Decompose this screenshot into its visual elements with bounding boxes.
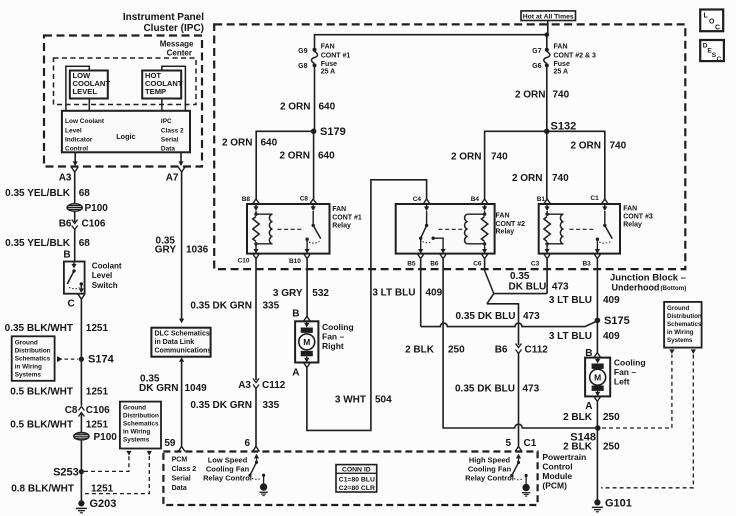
IPC logic box [62, 111, 190, 153]
svg-text:Cooling Fan: Cooling Fan [468, 465, 512, 474]
pin B4 fork [471, 196, 488, 204]
low coolant indicator housing rect [66, 66, 89, 111]
relay K2 contact to B6 exit [433, 238, 446, 253]
fuse F2 FAN CONT #2 and 3 25A [532, 44, 596, 76]
svg-text:S175: S175 [604, 315, 630, 327]
svg-text:5: 5 [505, 438, 511, 449]
wire P100 to S253 [80, 440, 82, 472]
svg-text:0.5 BLK/WHT: 0.5 BLK/WHT [10, 420, 73, 431]
label: Instrument Panel Cluster (IPC) title [123, 12, 204, 34]
wire C to S174 [80, 299, 82, 359]
wire C106 to coolant level switch [74, 230, 76, 262]
label: 0.35 DK BLU 473 (to C112) [455, 311, 540, 322]
power feed Hot at All Times [521, 11, 576, 21]
svg-text:Relay: Relay [332, 223, 351, 230]
svg-text:M: M [303, 337, 310, 347]
DLC schematics reference box [151, 328, 211, 357]
svg-text:2 BLK: 2 BLK [563, 442, 593, 453]
svg-text:FAN: FAN [496, 213, 510, 220]
label: Cooling Fan - Left [614, 358, 646, 387]
fan right pin B fork [304, 316, 311, 321]
svg-text:GRY: GRY [155, 245, 177, 256]
svg-text:409: 409 [603, 295, 620, 306]
svg-text:C8: C8 [65, 405, 78, 416]
pin 6 connector fork [244, 438, 259, 452]
relay K1 control dashed link [278, 228, 304, 230]
svg-text:1251: 1251 [86, 323, 109, 334]
svg-text:L: L [704, 13, 709, 20]
wire B5 down [420, 259, 422, 327]
svg-text:M: M [594, 373, 601, 383]
pin B8 fork [242, 196, 260, 204]
label: 2 ORN 740 (to B1) [512, 173, 569, 184]
junction block dashed box [214, 24, 685, 269]
svg-text:2 ORN: 2 ORN [222, 138, 253, 149]
label: 0.8 BLK/WHT 1251 [11, 484, 113, 495]
relay K3 coil to C3 exit [545, 244, 550, 254]
svg-text:Fan –: Fan – [614, 367, 636, 377]
fuse F1 FAN CONT #1 25A [298, 44, 350, 76]
pin C3 fork [531, 254, 551, 268]
relay K2 switch to B5 exit [418, 238, 423, 253]
svg-text:C112: C112 [262, 380, 286, 391]
svg-text:Relay Control: Relay Control [465, 474, 514, 483]
wire S132 branch to C1 [547, 131, 605, 199]
wire S174 to C106 [80, 359, 82, 405]
ground distribution reference box (right) [664, 302, 702, 348]
svg-text:Ground: Ground [667, 305, 690, 312]
pin A7 connector fork [166, 167, 185, 184]
svg-text:S174: S174 [88, 354, 115, 366]
ground G101 [592, 498, 632, 512]
svg-text:640: 640 [318, 151, 335, 162]
pin B10 fork [289, 254, 311, 265]
svg-text:Class 2: Class 2 [161, 128, 184, 135]
label: FAN CONT #2 Relay [496, 213, 526, 236]
svg-text:B5: B5 [407, 261, 416, 268]
svg-text:P100: P100 [94, 432, 118, 443]
svg-text:A3: A3 [59, 173, 72, 184]
svg-text:B6: B6 [59, 219, 72, 230]
svg-text:Indicator: Indicator [65, 137, 93, 144]
svg-text:3 LT BLU: 3 LT BLU [549, 295, 592, 306]
svg-text:DK BLU: DK BLU [509, 282, 547, 293]
label: 3 WHT 504 [335, 395, 392, 406]
svg-text:Center: Center [167, 49, 192, 58]
connector ID table CONN ID [336, 465, 377, 492]
label: 0.35 DK BLU 473 (2) [455, 384, 540, 395]
cooling fan left motor M2 [585, 358, 610, 397]
wire fan right A to relay2 C4 (3 WHT) [307, 180, 427, 431]
svg-text:740: 740 [610, 141, 627, 152]
svg-text:B6: B6 [430, 261, 439, 268]
svg-text:S253: S253 [53, 467, 79, 479]
label: 3 LT BLU 409 (3) [549, 331, 620, 342]
svg-text:Fuse: Fuse [554, 61, 570, 68]
svg-text:0.5 BLK/WHT: 0.5 BLK/WHT [10, 387, 73, 398]
label: 2 ORN 740 (fuse2) [515, 90, 570, 101]
wire into fuse 1 [314, 35, 316, 50]
svg-text:C10: C10 [238, 258, 250, 265]
svg-text:Systems: Systems [123, 437, 150, 444]
wire fuse2 to S132 [546, 67, 548, 131]
svg-text:C1: C1 [590, 195, 599, 202]
relay K3 switch [596, 204, 613, 243]
relay K2 switch [419, 204, 435, 243]
wire C106 to P100 (2) [80, 414, 82, 433]
dashed link G101 to ground ref box [601, 355, 693, 488]
svg-text:Control: Control [65, 146, 88, 153]
label: 2 BLK 250 (B6) [405, 345, 465, 356]
svg-text:Instrument Panel: Instrument Panel [123, 12, 204, 23]
svg-text:Powertrain: Powertrain [542, 452, 586, 462]
hot coolant indicator housing rect [162, 66, 186, 111]
label: 0.35 GRY 1036 [155, 236, 209, 256]
indicator HOT COOLANT TEMP [142, 71, 183, 99]
label: 2 ORN 640 (to C8) [279, 151, 335, 162]
svg-text:473: 473 [552, 282, 569, 293]
svg-text:3 WHT: 3 WHT [335, 395, 366, 406]
svg-text:0.35 DK GRN: 0.35 DK GRN [190, 301, 252, 312]
svg-text:335: 335 [263, 400, 280, 411]
reference arrows below right ground box [669, 349, 696, 354]
IPC instrument panel cluster dashed box [44, 36, 202, 167]
label: 0.35 YEL/BLK 68 (2) [5, 238, 90, 249]
svg-text:A: A [585, 401, 592, 412]
svg-text:0.35 DK GRN: 0.35 DK GRN [190, 400, 252, 411]
PCM high speed internal ground [522, 484, 530, 496]
pin A3 connector fork [59, 167, 78, 184]
svg-text:1049: 1049 [185, 383, 208, 394]
label: 3 LT BLU 409 (B3) [549, 295, 620, 306]
wire S132 branch to B4 [485, 131, 547, 199]
svg-text:TEMP: TEMP [145, 87, 166, 96]
svg-text:Coolant: Coolant [92, 262, 122, 271]
svg-text:P100: P100 [85, 203, 109, 214]
connector P100 inline (2) [74, 432, 117, 443]
junction node above fuse 2 [545, 32, 550, 37]
dashed reference link to S174 [57, 356, 78, 362]
ground G203 [76, 498, 117, 513]
fan right pin A fork [292, 363, 310, 379]
svg-text:(Bottom): (Bottom) [661, 285, 687, 292]
svg-text:Class 2: Class 2 [172, 466, 197, 473]
wire S179 branch to B8 [256, 131, 313, 199]
svg-text:G7: G7 [532, 48, 541, 55]
svg-text:FAN: FAN [332, 206, 346, 213]
svg-text:2 ORN: 2 ORN [570, 141, 601, 152]
label: 3 GRY 532 [273, 288, 330, 299]
wire B5 horizontal to S175 [421, 321, 598, 327]
relay K1 coil winding [256, 214, 273, 244]
wire P100 to C106 [74, 211, 76, 222]
svg-text:409: 409 [426, 288, 443, 299]
svg-text:C4: C4 [413, 196, 422, 203]
svg-text:C6: C6 [473, 261, 482, 268]
svg-text:Fuse: Fuse [321, 61, 337, 68]
svg-text:in Wiring: in Wiring [123, 429, 150, 436]
relay K1 switch to B10 exit [305, 239, 310, 253]
svg-text:CONT #2: CONT #2 [496, 221, 526, 228]
label: fan right pin B [292, 309, 299, 320]
svg-text:B3: B3 [582, 261, 591, 268]
pin C10 fork [238, 254, 260, 265]
svg-text:Relay: Relay [623, 221, 642, 228]
svg-text:409: 409 [603, 331, 620, 342]
relay K3 coil feed arrow [545, 204, 550, 214]
pin C connector fork [67, 294, 84, 309]
relay K3 coil resistor [544, 213, 550, 246]
svg-text:C1=80 BLU: C1=80 BLU [339, 477, 375, 484]
svg-text:Logic: Logic [116, 132, 135, 141]
svg-text:Schematics: Schematics [123, 421, 159, 428]
svg-text:0.8 BLK/WHT: 0.8 BLK/WHT [11, 484, 74, 495]
svg-text:G9: G9 [298, 48, 307, 55]
svg-text:B6: B6 [495, 345, 508, 356]
svg-text:A: A [292, 368, 299, 379]
svg-text:S179: S179 [320, 126, 346, 138]
svg-text:CONT #3: CONT #3 [623, 214, 653, 221]
svg-text:G6: G6 [532, 63, 541, 70]
message center dashed box [54, 58, 197, 105]
dashed link S148 to ground ref box [602, 355, 672, 429]
svg-text:C3: C3 [531, 261, 540, 268]
svg-text:473: 473 [523, 311, 540, 322]
svg-text:DLC Schematics: DLC Schematics [155, 330, 210, 337]
indicator LOW COOLANT LEVEL [70, 71, 111, 99]
label: pin B [63, 250, 70, 261]
label: 0.35 DK GRN 335 [190, 301, 279, 312]
svg-text:473: 473 [523, 384, 540, 395]
svg-text:3 GRY: 3 GRY [273, 288, 303, 299]
svg-text:FAN: FAN [623, 206, 637, 213]
svg-text:640: 640 [261, 138, 278, 149]
svg-text:Right: Right [322, 341, 344, 351]
splice S253 [53, 467, 84, 479]
pin B5 fork [407, 254, 424, 268]
label: Junction Block - Underhood (Bottom) [610, 273, 686, 293]
svg-text:0.35 YEL/BLK: 0.35 YEL/BLK [5, 238, 71, 249]
svg-text:LEVEL: LEVEL [73, 87, 98, 96]
wire S148 to G101 [596, 428, 598, 502]
pin B3 fork [582, 254, 600, 268]
splice S132 [544, 121, 576, 135]
coolant level switch box [64, 262, 85, 294]
relay K1 switch [305, 204, 320, 243]
svg-text:B8: B8 [242, 196, 251, 203]
wire S175 to fan left [596, 320, 598, 352]
svg-text:1251: 1251 [86, 387, 109, 398]
dashed link G203 to ground ref box [84, 456, 149, 494]
wire hot feed horizontal [314, 34, 548, 36]
label: PCM Class 2 Serial Data [172, 457, 197, 493]
relay K2 coil winding [465, 214, 485, 244]
svg-text:0.35 DK BLU: 0.35 DK BLU [455, 384, 515, 395]
svg-text:Distribution: Distribution [15, 347, 51, 354]
relay K2 FAN CONT #2 box [396, 204, 495, 254]
label: fan left pin B [585, 348, 592, 359]
svg-text:C106: C106 [82, 219, 106, 230]
svg-text:2 ORN: 2 ORN [515, 90, 546, 101]
wire into fuse 2 [546, 35, 548, 50]
svg-text:504: 504 [375, 395, 392, 406]
svg-text:High Speed: High Speed [469, 456, 511, 465]
PCM powertrain control module dashed box [163, 452, 537, 506]
wire S253 to G203 [80, 472, 82, 504]
wire B6 down to S148 [443, 259, 595, 428]
splice S179 [311, 126, 346, 138]
label: Message Center [160, 40, 194, 58]
relay K1 coil to C10 exit [253, 244, 258, 254]
svg-text:0.35: 0.35 [510, 271, 530, 282]
svg-text:1251: 1251 [86, 420, 109, 431]
label: IPC Class 2 Serial Data [161, 118, 184, 153]
label: 2 ORN 740 (to C1) [570, 141, 626, 152]
label: FAN CONT #3 Relay [623, 206, 653, 229]
svg-text:740: 740 [552, 173, 569, 184]
svg-text:Data: Data [161, 146, 175, 153]
svg-text:in Wiring: in Wiring [15, 363, 42, 370]
svg-text:CONT #1: CONT #1 [332, 215, 362, 222]
svg-text:250: 250 [603, 442, 620, 453]
label: Cooling Fan - Right [322, 322, 354, 351]
svg-text:0.35 DK BLU: 0.35 DK BLU [455, 311, 515, 322]
svg-text:Ground: Ground [123, 405, 146, 412]
connector C106 pin C8 [65, 405, 110, 417]
pin C4 fork [413, 196, 430, 204]
svg-text:1036: 1036 [186, 245, 209, 256]
svg-text:Switch: Switch [92, 281, 118, 290]
svg-text:CONT #2 & 3: CONT #2 & 3 [554, 52, 597, 59]
wire C112 to PCM pin 5 [518, 354, 520, 447]
svg-text:Serial: Serial [172, 476, 191, 483]
svg-text:C: C [67, 299, 74, 310]
svg-text:2 ORN: 2 ORN [512, 173, 543, 184]
relay K1 coil resistor [253, 213, 259, 246]
splice S148 [570, 425, 600, 443]
svg-text:in Data Link: in Data Link [155, 339, 195, 346]
pin C8 fork [300, 196, 317, 205]
svg-text:B4: B4 [471, 196, 480, 203]
pin C6 fork [473, 254, 488, 268]
label: 0.35 DK GRN 1049 [139, 374, 207, 395]
svg-text:Ground: Ground [15, 339, 38, 346]
svg-text:Schematics: Schematics [667, 321, 702, 328]
svg-text:C106: C106 [86, 405, 110, 416]
svg-text:C1: C1 [524, 438, 537, 449]
ground distribution reference box (left) [12, 336, 55, 381]
label: 0.35 BLK/WHT 1251 [5, 323, 109, 334]
svg-text:532: 532 [312, 288, 329, 299]
svg-text:Message: Message [160, 40, 194, 49]
label: Low Speed Cooling Fan Relay Control [203, 456, 252, 483]
splice S174 [79, 354, 115, 366]
svg-text:Low Speed: Low Speed [208, 456, 248, 465]
wire S179 to C8 [313, 131, 315, 199]
svg-text:G203: G203 [90, 498, 117, 510]
relay K2 coil to C6 exit [482, 244, 487, 254]
svg-text:25 A: 25 A [321, 69, 336, 76]
svg-text:Level: Level [65, 128, 82, 135]
svg-text:59: 59 [164, 438, 176, 449]
label: Powertrain Control Module (PCM) [542, 452, 586, 491]
wire B3 down to S175 [596, 259, 598, 321]
svg-text:Relay: Relay [496, 229, 515, 236]
svg-text:C8: C8 [300, 196, 309, 203]
svg-text:A7: A7 [166, 173, 179, 184]
label: 3 LT BLU 409 (B5) [372, 288, 442, 299]
svg-text:68: 68 [79, 188, 91, 199]
svg-text:Cooling: Cooling [614, 358, 646, 368]
relay K2 control dashed link [439, 228, 464, 230]
PCM low speed internal ground [259, 483, 267, 495]
svg-text:Low Coolant: Low Coolant [65, 118, 105, 125]
svg-text:3 LT BLU: 3 LT BLU [372, 288, 415, 299]
fan left pin B fork [594, 353, 601, 358]
splice S175 [595, 315, 630, 327]
svg-text:250: 250 [448, 345, 465, 356]
svg-text:25 A: 25 A [554, 69, 569, 76]
PCM high speed driver switch [510, 454, 528, 484]
svg-text:2 ORN: 2 ORN [451, 152, 482, 163]
svg-text:Cluster (IPC): Cluster (IPC) [143, 23, 204, 34]
pin B1 fork [537, 196, 551, 204]
label: 0.35 DK GRN 335 (2) [190, 400, 279, 411]
wire fuse1 to S179 [314, 67, 316, 131]
svg-text:2 ORN: 2 ORN [279, 151, 310, 162]
label: High Speed Cooling Fan Relay Control [465, 456, 514, 483]
svg-text:Systems: Systems [667, 337, 693, 344]
svg-text:Cooling: Cooling [322, 322, 354, 332]
label: 2 BLK 250 (to G101) [563, 442, 620, 453]
wire C112 to PCM pin 6 [255, 389, 257, 447]
wire hot feed down [547, 21, 549, 35]
connector C112 pin B6 [495, 344, 549, 356]
label: 2 ORN 640 (branch B8) [222, 138, 278, 149]
wire C6 down with diagonal [485, 259, 494, 294]
svg-text:Level: Level [92, 271, 112, 280]
svg-text:PCM: PCM [172, 457, 188, 464]
svg-text:Fan –: Fan – [322, 332, 344, 342]
dashed link S253 to ground ref box [84, 456, 129, 471]
pin 5 connector fork [505, 438, 536, 452]
wire C3 down [546, 259, 548, 294]
wire A7 down to DLC [179, 172, 184, 323]
coolant level switch contacts [67, 262, 84, 294]
svg-text:(PCM): (PCM) [542, 481, 567, 491]
svg-text:740: 740 [491, 152, 508, 163]
svg-text:A3: A3 [238, 380, 251, 391]
svg-text:Distribution: Distribution [123, 413, 159, 420]
label: Logic [116, 132, 135, 141]
wire fan left A to S148 [596, 401, 598, 428]
PCM low speed driver switch [248, 454, 265, 484]
svg-text:G8: G8 [298, 63, 307, 70]
svg-text:Communications: Communications [155, 348, 212, 355]
ground distribution reference box (middle) [120, 402, 161, 449]
label: Low Coolant Level Indicator Control [65, 118, 105, 153]
wire logic output right arrow [178, 152, 183, 166]
svg-text:Cooling Fan: Cooling Fan [206, 465, 250, 474]
svg-text:640: 640 [319, 102, 336, 113]
wire A3 to P100 [74, 172, 76, 204]
wire logic output left arrow [73, 152, 78, 166]
wire C6-C3 horizontal link [494, 293, 547, 295]
relay K1 FAN CONT #1 box [247, 204, 330, 254]
svg-text:Control: Control [542, 462, 572, 472]
svg-text:G101: G101 [605, 498, 632, 510]
cooling fan right motor M1 [295, 321, 318, 362]
